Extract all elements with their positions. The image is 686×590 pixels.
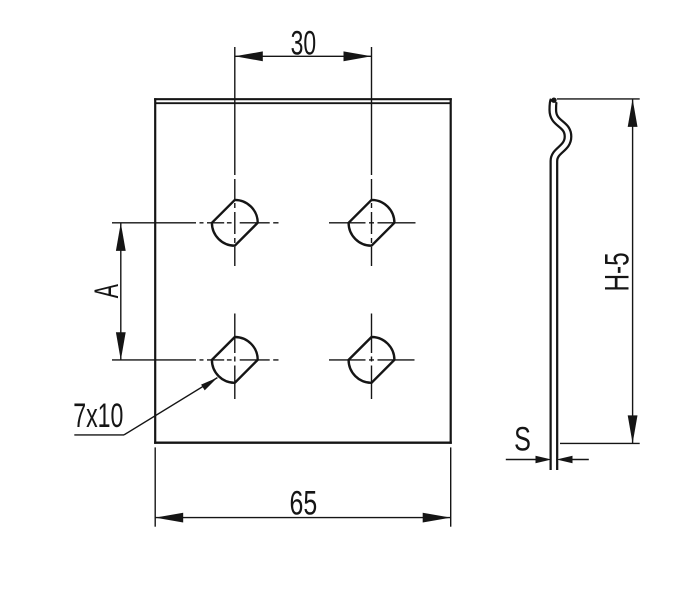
dimension 65 left extension line bbox=[154, 447, 156, 526]
svg-text:7x10: 7x10 bbox=[73, 397, 123, 436]
dimension 65 left arrowhead bbox=[155, 513, 183, 523]
dimension 30 left arrowhead bbox=[235, 51, 263, 61]
dimension A bottom arrowhead bbox=[116, 332, 126, 360]
dimension S left line bbox=[506, 459, 537, 461]
dimension 30 right arrowhead bbox=[344, 51, 372, 61]
dimension 65 right arrowhead bbox=[423, 513, 451, 523]
svg-text:65: 65 bbox=[290, 485, 318, 523]
leader underline bbox=[74, 434, 124, 436]
hole top-right 7x10 slot bbox=[349, 200, 395, 246]
hole top-left 7x10 slot bbox=[212, 200, 258, 246]
leader line to bottom-left hole bbox=[124, 378, 217, 435]
dimension H-5 bottom arrowhead bbox=[628, 415, 638, 443]
dimension S left arrowhead (points right) bbox=[536, 456, 552, 463]
horizontal centerline top-right hole bbox=[329, 222, 416, 224]
vertical centerline bottom-right hole bbox=[371, 314, 373, 400]
dimension S right arrowhead (points left) bbox=[557, 456, 573, 463]
hole bottom-left 7x10 slot bbox=[212, 337, 258, 383]
side view sheet profile (black outline) bbox=[553, 100, 568, 470]
sheet profile rounded tip bbox=[551, 98, 556, 103]
leader arrowhead bbox=[201, 378, 217, 391]
dimension S right line bbox=[572, 459, 588, 461]
vertical centerline top-left hole (also ext. line of dim 30) bbox=[234, 47, 236, 266]
dimension H-5 top extension line bbox=[557, 98, 640, 100]
svg-text:A: A bbox=[88, 283, 127, 298]
plate top edge double line bbox=[154, 99, 452, 103]
plate outline front view bbox=[154, 98, 452, 444]
svg-text:30: 30 bbox=[291, 24, 317, 63]
dimension 30 line bbox=[235, 55, 372, 57]
svg-text:S: S bbox=[514, 421, 531, 459]
dimension A top arrowhead bbox=[116, 223, 126, 251]
vertical centerline bottom-left hole bbox=[234, 314, 236, 400]
svg-text:H-5: H-5 bbox=[599, 252, 637, 291]
vertical centerline top-right hole (also ext. line of dim 30) bbox=[371, 47, 373, 266]
dimension H-5 top arrowhead bbox=[628, 99, 638, 127]
horizontal centerline bottom-right hole bbox=[329, 359, 415, 361]
horizontal centerline top-left hole (also ext. line of dim A) bbox=[112, 222, 279, 224]
horizontal centerline bottom-left hole (also ext. line of dim A) bbox=[112, 359, 279, 361]
dimension A line bbox=[120, 223, 122, 360]
dimension 65 line bbox=[155, 517, 451, 519]
dimension H-5 bottom extension line bbox=[560, 442, 640, 444]
dimension H-5 line bbox=[632, 99, 634, 444]
hole bottom-right 7x10 slot bbox=[349, 337, 395, 383]
dimension 65 right extension line bbox=[450, 447, 452, 526]
side view sheet profile (white core making double line) bbox=[553, 102, 568, 470]
